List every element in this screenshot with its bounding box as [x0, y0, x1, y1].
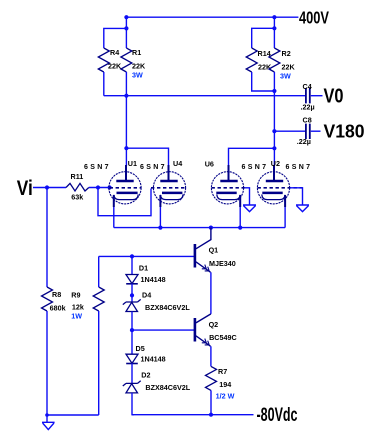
- ground U6 grid: [243, 205, 256, 212]
- wire R14 top branch: [252, 28, 275, 48]
- wire R4 top branch: [104, 28, 127, 48]
- wire Q2 base line: [132, 329, 194, 331]
- capacitor C4: [306, 88, 323, 103]
- svg-text:R1: R1: [132, 48, 141, 57]
- node junction Q2 base tee: [130, 328, 134, 332]
- svg-text:D5: D5: [136, 344, 145, 353]
- node 400V junction left: [124, 15, 128, 19]
- diode D2 zener BZX84C6V2L: [123, 381, 141, 393]
- ground main: [42, 422, 55, 429]
- wire U2 cathode drop: [284, 207, 286, 228]
- svg-text:Vi: Vi: [17, 176, 33, 200]
- svg-text:BZX84C6V2L: BZX84C6V2L: [145, 383, 190, 392]
- node junction R7/-80V rail: [209, 413, 213, 417]
- resistor R7: [206, 366, 217, 390]
- wire Q2 emitter to R7: [210, 346, 212, 366]
- wire R14 bottom lead: [252, 72, 275, 91]
- wire R2 bottom vertical to plates: [273, 72, 275, 148]
- wire U1 plate stub: [125, 148, 127, 166]
- wire 400V rail: [126, 16, 298, 18]
- wire U6 grid to ground: [245, 188, 250, 205]
- node junction R14 branch: [272, 26, 276, 30]
- node junction diode chain top: [130, 254, 134, 258]
- node junction C8 tee: [272, 129, 276, 133]
- wire Vi input: [33, 187, 66, 189]
- wire right pair feed vertical: [273, 17, 275, 48]
- svg-text:U6: U6: [205, 160, 214, 169]
- svg-text:1W: 1W: [71, 312, 82, 321]
- diode D1 1N4148: [126, 275, 138, 284]
- node junction Vi/R8: [45, 185, 49, 189]
- svg-text:3W: 3W: [280, 72, 291, 81]
- svg-text:6SN7: 6SN7: [84, 164, 109, 171]
- transistor Q1 MJE340: [195, 228, 211, 273]
- svg-text:U2: U2: [271, 159, 280, 168]
- wire D5-D2 link: [131, 364, 133, 384]
- wire U4 plate branch: [126, 148, 168, 166]
- wire D1 anode lead: [131, 256, 133, 274]
- capacitor C8: [306, 124, 321, 139]
- node 400V junction right: [272, 15, 276, 19]
- wire -80V rail: [132, 414, 254, 416]
- wire R9 top lead: [98, 256, 100, 287]
- svg-text:22K: 22K: [108, 62, 122, 71]
- svg-text:V0: V0: [324, 85, 344, 107]
- node junction grid link: [96, 185, 100, 189]
- svg-text:R8: R8: [52, 290, 61, 299]
- node junction D1/D4: [130, 293, 134, 297]
- svg-text:R9: R9: [71, 291, 80, 300]
- node junction U1/U4 plate tee: [124, 146, 128, 150]
- ground U2 grid: [296, 205, 309, 212]
- wire U2 grid to ground: [290, 188, 303, 205]
- svg-text:C4: C4: [303, 82, 312, 91]
- svg-text:6SN7: 6SN7: [286, 164, 311, 171]
- wire R8 bottom lead: [46, 311, 48, 422]
- node junction ground rail: [45, 413, 49, 417]
- wire U6 plate branch: [229, 148, 275, 166]
- svg-text:D4: D4: [142, 291, 151, 300]
- transistor Q2 BC549C: [195, 314, 211, 346]
- svg-text:Q1: Q1: [209, 246, 219, 255]
- svg-text:22K: 22K: [132, 62, 146, 71]
- svg-text:1N4148: 1N4148: [141, 355, 166, 364]
- tube U4 6SN7: [151, 165, 186, 207]
- svg-text:.22µ: .22µ: [301, 103, 315, 112]
- svg-text:BZX84C6V2L: BZX84C6V2L: [145, 303, 190, 312]
- wire D2 bottom lead: [132, 393, 134, 415]
- resistor R14: [246, 48, 257, 72]
- tube U6 6SN7: [211, 165, 244, 207]
- resistor R9: [93, 287, 104, 311]
- svg-text:U4: U4: [173, 159, 182, 168]
- wire R11 to U1 grid: [89, 187, 110, 189]
- diode D4 zener BZX84C6V2L: [123, 299, 141, 311]
- node junction R4 branch: [124, 26, 128, 30]
- wire U1 plate feed vertical: [125, 96, 127, 149]
- wire U4 grid link: [98, 188, 151, 216]
- wire R7 bottom lead: [210, 390, 212, 414]
- wire U1 cathode drop: [113, 207, 115, 228]
- wire V0 node horizontal: [104, 95, 305, 97]
- svg-text:1N4148: 1N4148: [141, 275, 166, 284]
- resistor R4: [98, 48, 109, 72]
- svg-text:-80Vdc: -80Vdc: [257, 405, 298, 426]
- wire cathode bus: [114, 227, 285, 229]
- diode D5 1N4148: [126, 354, 138, 363]
- tube U2 6SN7: [257, 165, 302, 207]
- svg-text:Q2: Q2: [209, 320, 219, 329]
- wire R9 bottom lead: [98, 311, 100, 415]
- svg-text:C8: C8: [303, 115, 312, 124]
- tube U1 6SN7: [109, 165, 141, 207]
- node junction V0/plate: [124, 94, 128, 98]
- svg-text:63k: 63k: [71, 193, 83, 202]
- svg-text:3W: 3W: [132, 71, 143, 80]
- wire R4 bottom lead: [103, 72, 105, 96]
- wire ground rail: [47, 414, 99, 416]
- svg-text:R2: R2: [282, 49, 291, 58]
- node junction U4 cathode: [158, 226, 162, 230]
- node junction R14/R2 bottom: [272, 89, 276, 93]
- svg-text:22K: 22K: [282, 63, 296, 72]
- svg-text:12k: 12k: [72, 302, 84, 311]
- svg-text:BC549C: BC549C: [209, 333, 237, 342]
- node junction U6 cathode: [238, 226, 242, 230]
- wire C8 branch: [274, 130, 305, 132]
- svg-text:680k: 680k: [50, 303, 66, 312]
- node junction U1 grid pin: [108, 185, 112, 189]
- resistor R8: [42, 287, 53, 311]
- wire Q1 emitter to Q2 collector: [210, 272, 212, 314]
- wire R1 bottom lead: [125, 72, 127, 96]
- resistor R1: [121, 48, 132, 72]
- svg-text:1/2 W: 1/2 W: [216, 391, 235, 400]
- svg-text:D2: D2: [141, 371, 150, 380]
- svg-text:D1: D1: [139, 264, 148, 273]
- svg-text:400V: 400V: [299, 8, 329, 28]
- resistor R2: [269, 48, 280, 72]
- svg-text:194: 194: [219, 380, 231, 389]
- svg-text:R4: R4: [110, 48, 119, 57]
- node junction Q1 collector tee: [209, 226, 213, 230]
- wire D4 to Q2 base node: [131, 312, 133, 355]
- svg-text:MJE340: MJE340: [209, 259, 236, 268]
- node junction U6/U2 plate tee: [272, 146, 276, 150]
- svg-text:6SN7: 6SN7: [242, 164, 267, 171]
- svg-text:6SN7: 6SN7: [140, 164, 165, 171]
- svg-text:.22µ: .22µ: [297, 137, 311, 146]
- svg-text:U1: U1: [128, 159, 137, 168]
- wire left pair feed vertical: [125, 17, 127, 48]
- wire U6 cathode drop: [239, 207, 241, 228]
- svg-text:R7: R7: [218, 367, 227, 376]
- wire U4 cathode drop: [159, 207, 161, 228]
- resistor R11: [66, 183, 89, 191]
- wire D1-D4 link: [131, 284, 133, 302]
- svg-text:V180: V180: [324, 120, 365, 141]
- wire left rail Vi to R8: [46, 188, 48, 288]
- wire U2 plate stub: [273, 148, 275, 166]
- wire Q1 base line: [99, 255, 194, 257]
- svg-text:R11: R11: [71, 172, 84, 181]
